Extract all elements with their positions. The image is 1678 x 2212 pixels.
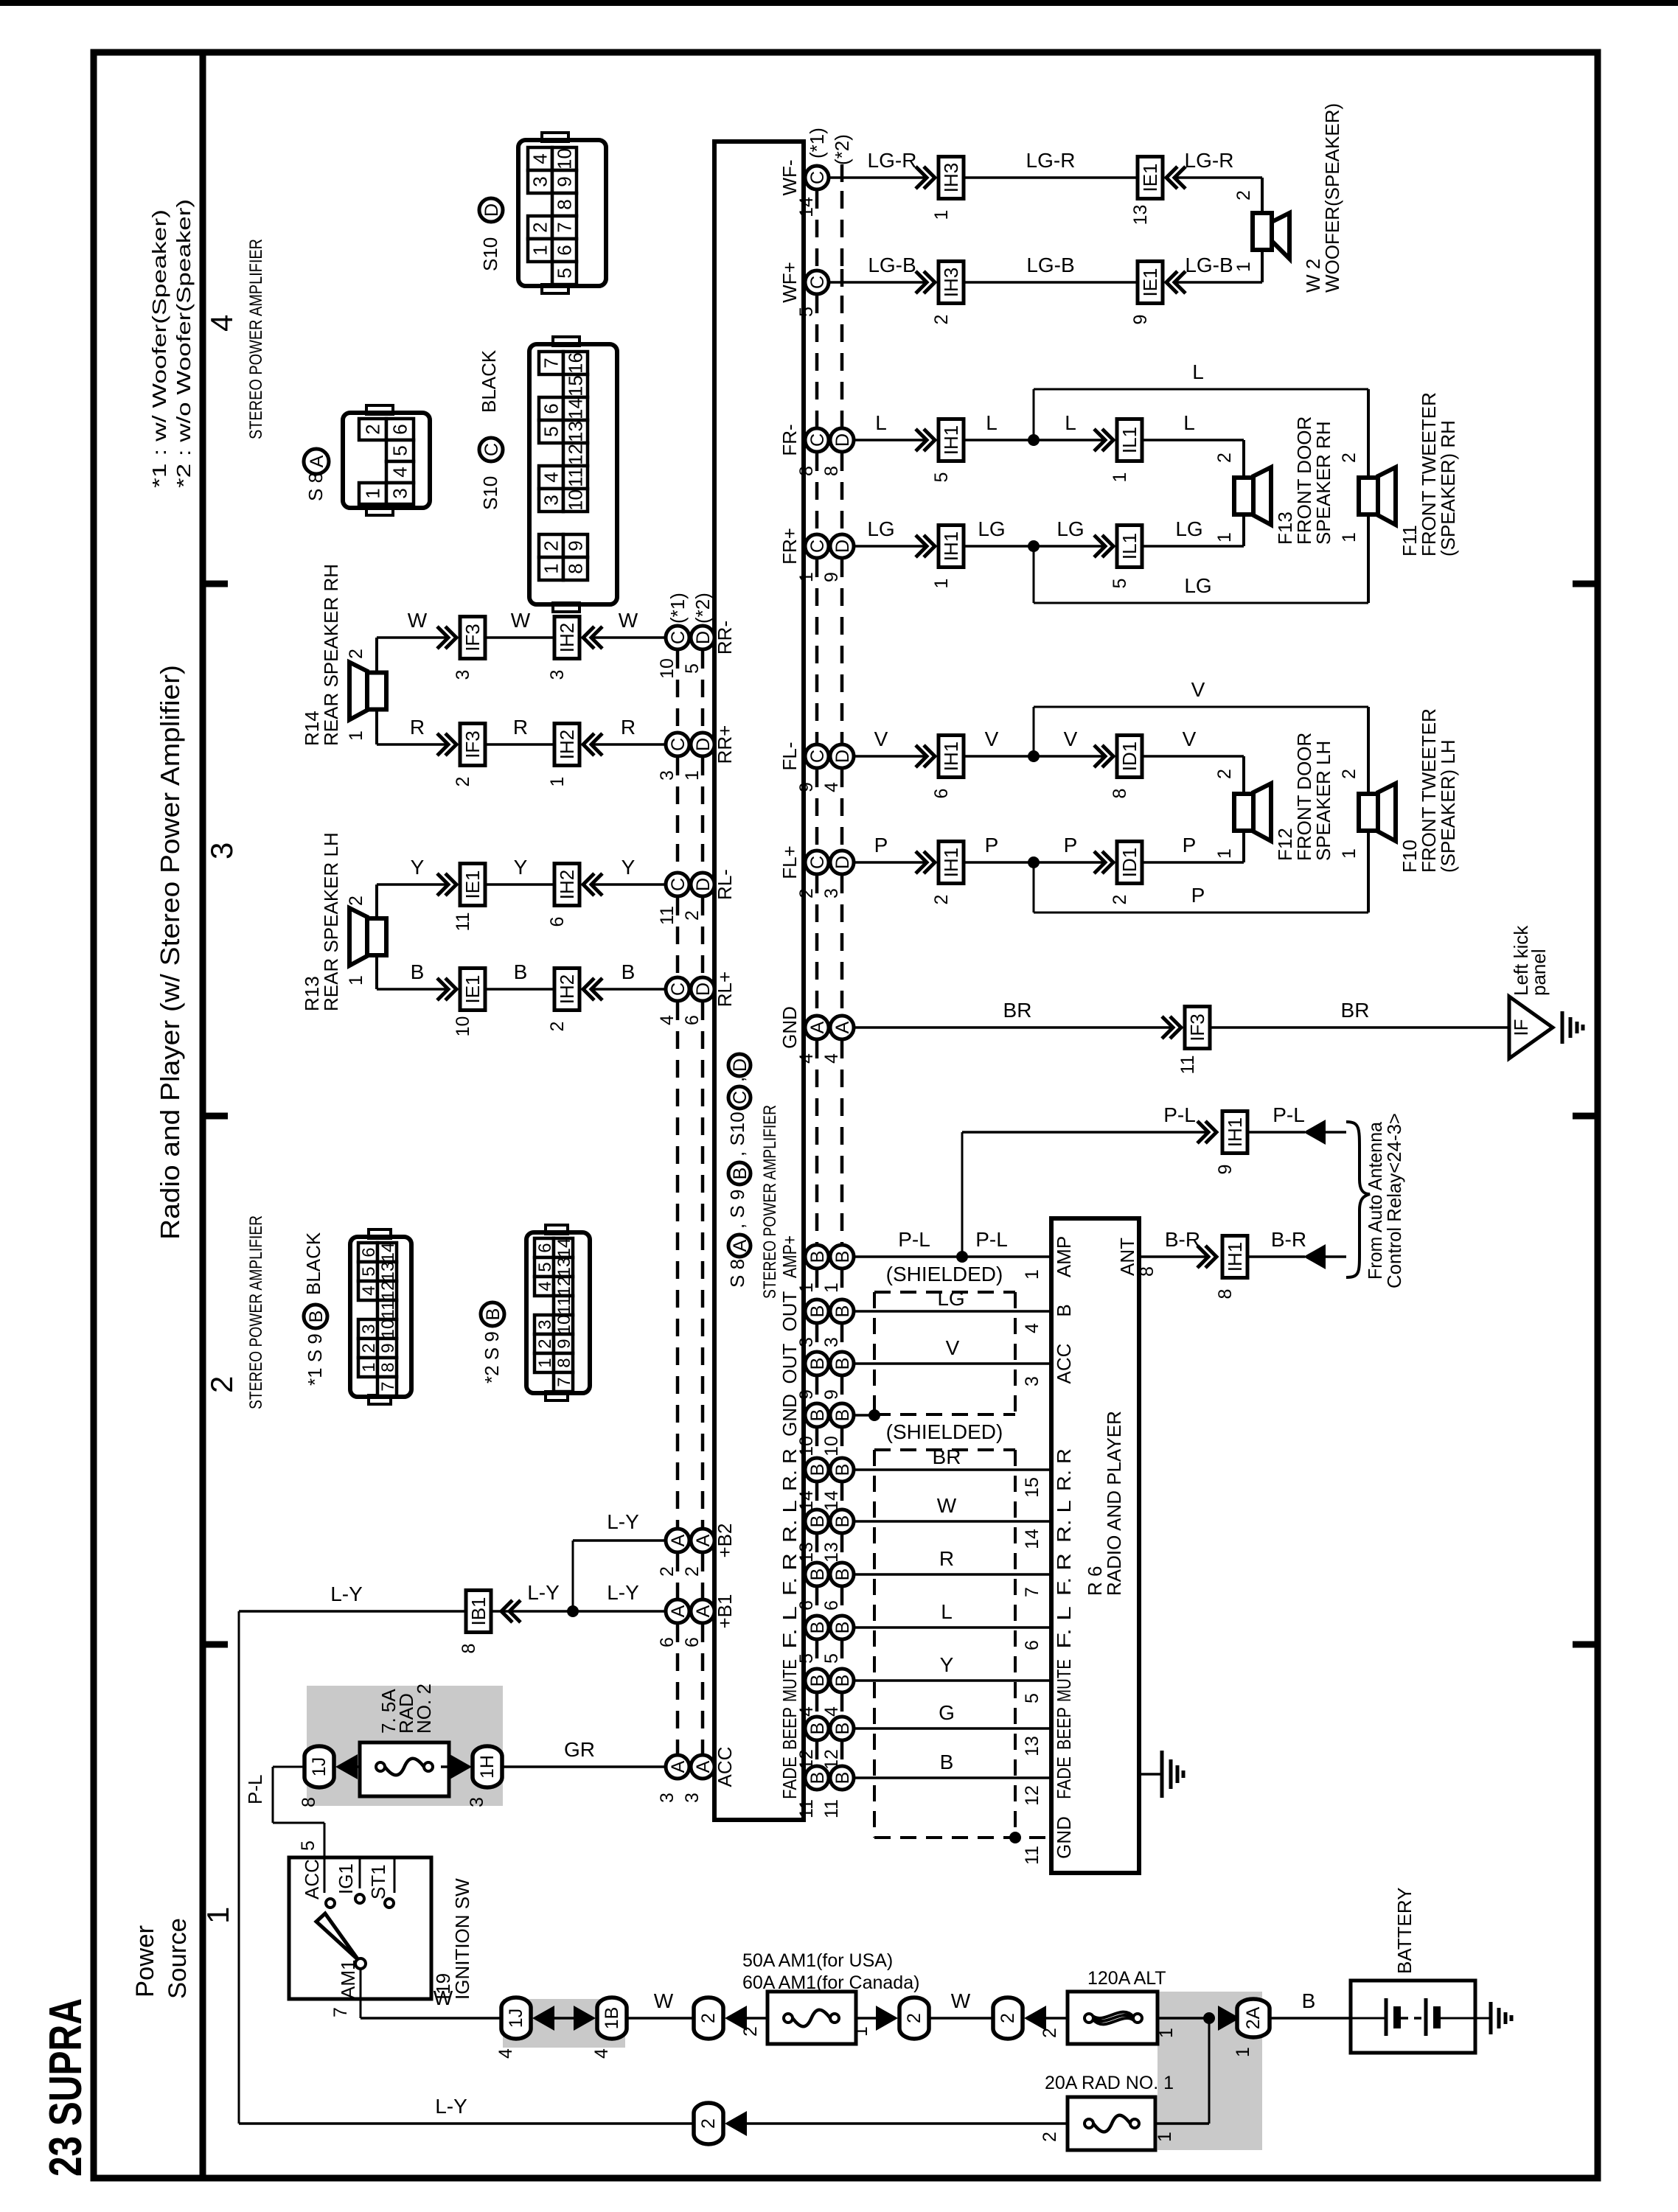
svg-text:1: 1 — [796, 572, 817, 582]
svg-text:9: 9 — [796, 1389, 817, 1400]
connector 1B pin 4 — [597, 1998, 627, 2039]
svg-text:7: 7 — [1022, 1587, 1042, 1597]
svg-text:1: 1 — [931, 210, 952, 220]
svg-text:120A ALT: 120A ALT — [1087, 1968, 1166, 1989]
svg-text:12: 12 — [565, 444, 587, 465]
svg-text:2: 2 — [931, 315, 952, 325]
svg-text:P-L: P-L — [975, 1228, 1008, 1251]
riser from RAD NO.1 to junction — [1208, 2018, 1211, 2124]
svg-text:1: 1 — [346, 975, 366, 985]
svg-text:V: V — [1064, 728, 1078, 750]
svg-text:5: 5 — [821, 1653, 842, 1664]
svg-text:2: 2 — [931, 895, 952, 905]
connector 2 (oval) — [899, 1998, 929, 2039]
svg-text:11: 11 — [378, 1301, 398, 1319]
front tweeter speaker — [1378, 784, 1396, 841]
svg-text:13: 13 — [821, 1542, 842, 1563]
svg-text:P-L: P-L — [244, 1775, 266, 1804]
svg-text:6: 6 — [547, 917, 568, 927]
connector IH2 pin 1 — [554, 724, 579, 766]
wire LG from amp — [854, 545, 926, 548]
svg-text:3: 3 — [467, 1797, 487, 1807]
svg-text:C: C — [730, 1091, 751, 1104]
svg-text:B-R: B-R — [1165, 1228, 1200, 1251]
svg-text:3: 3 — [547, 670, 568, 680]
svg-text:5: 5 — [1022, 1693, 1042, 1703]
svg-text:A: A — [668, 1760, 689, 1773]
wire to door speaker — [1142, 861, 1244, 864]
svg-text:ANT: ANT — [1116, 1238, 1138, 1276]
svg-text:5: 5 — [540, 426, 563, 436]
svg-text:1B: 1B — [602, 2007, 622, 2030]
wire P from amp — [854, 861, 926, 864]
svg-text:2: 2 — [1233, 190, 1254, 200]
svg-text:BR: BR — [1003, 999, 1032, 1022]
svg-text:14: 14 — [378, 1243, 398, 1263]
top branch wire to tweeter — [1033, 707, 1035, 756]
svg-text:S10: S10 — [479, 476, 501, 510]
svg-text:IF: IF — [1510, 1019, 1532, 1036]
svg-text:4: 4 — [796, 1053, 817, 1064]
svg-text:A: A — [807, 1021, 828, 1033]
connector IE1 pin 9 — [1138, 262, 1163, 304]
wires OUT/OUT (LG,V) — [854, 1310, 1051, 1313]
junction — [567, 1605, 579, 1617]
junction — [1028, 540, 1040, 552]
S10 D caption — [479, 198, 503, 222]
svg-text:B: B — [832, 1515, 853, 1528]
connector 2 (oval) — [694, 1998, 723, 2039]
svg-text:D: D — [693, 983, 714, 996]
svg-text:AMP+: AMP+ — [779, 1235, 801, 1278]
ground point IF triangle — [1509, 997, 1553, 1058]
svg-text:, S10: , S10 — [726, 1112, 748, 1156]
svg-text:W: W — [511, 609, 531, 632]
svg-text:D: D — [481, 203, 502, 217]
junction battery feed — [1203, 2012, 1215, 2024]
svg-text:12: 12 — [378, 1281, 398, 1301]
svg-text:panel: panel — [1528, 949, 1550, 996]
svg-text:8: 8 — [821, 466, 842, 476]
svg-text:2: 2 — [698, 2013, 719, 2023]
svg-text:3: 3 — [389, 488, 411, 498]
svg-text:ACC: ACC — [301, 1859, 323, 1899]
svg-text:2: 2 — [1110, 895, 1130, 905]
svg-text:11: 11 — [796, 1799, 817, 1818]
svg-text:Source: Source — [164, 1918, 192, 1999]
svg-text:L-Y: L-Y — [435, 2095, 467, 2118]
svg-text:A: A — [668, 1605, 689, 1617]
svg-text:1: 1 — [931, 579, 952, 589]
svg-text:SPEAKER RH: SPEAKER RH — [1312, 421, 1334, 545]
amp left C/D dashed bus lines — [676, 651, 680, 731]
right edge tick 4/3 — [1573, 581, 1598, 587]
svg-text:5: 5 — [796, 1653, 817, 1664]
arrow into 1J — [335, 1754, 358, 1779]
wire to woofer — [1175, 281, 1262, 284]
connector IH1 pin 8 — [1222, 1236, 1247, 1278]
svg-text:B: B — [832, 1772, 853, 1784]
svg-text:V: V — [874, 728, 888, 750]
svg-text:9: 9 — [554, 176, 576, 186]
connector IE1 pin 13 — [1138, 157, 1163, 199]
svg-text:4: 4 — [821, 1053, 842, 1064]
arrow from auto antenna relay (P-L) — [1303, 1120, 1326, 1145]
svg-text:2: 2 — [1040, 2028, 1060, 2038]
svg-text:GND: GND — [1053, 1816, 1075, 1859]
connector 2A pin 1 — [1237, 1999, 1270, 2037]
wire to door speaker — [1142, 755, 1244, 758]
ST1 terminal — [394, 1857, 396, 1893]
svg-text:13: 13 — [554, 1257, 574, 1277]
svg-text:C: C — [668, 738, 689, 751]
svg-text:9: 9 — [378, 1343, 398, 1353]
svg-text:B: B — [832, 1305, 853, 1318]
svg-text:1: 1 — [201, 1907, 235, 1924]
svg-text:C: C — [807, 433, 828, 447]
svg-text:D: D — [730, 1058, 751, 1072]
svg-text:IE1: IE1 — [1139, 268, 1161, 296]
left riser L-Y — [238, 1611, 240, 2124]
svg-text:1: 1 — [796, 1283, 817, 1293]
svg-text:6: 6 — [657, 1637, 678, 1647]
fuse box 20A RAD NO.1 — [1068, 2097, 1155, 2150]
connector S10 C BLACK pictorial — [529, 344, 617, 604]
svg-text:B: B — [832, 1675, 853, 1687]
svg-text:1: 1 — [1110, 472, 1130, 483]
svg-text:8: 8 — [1215, 1289, 1236, 1299]
svg-text:1: 1 — [851, 2026, 871, 2037]
svg-text:IB1: IB1 — [467, 1597, 490, 1625]
svg-text:10: 10 — [565, 489, 587, 511]
svg-text:3: 3 — [1022, 1376, 1042, 1386]
svg-text:IGNITION SW: IGNITION SW — [451, 1878, 473, 2000]
svg-text:*1 : w/ Woofer(Speaker): *1 : w/ Woofer(Speaker) — [148, 209, 170, 488]
connector IH2 pin 2 — [554, 969, 579, 1011]
right edge tick 2/1 — [1573, 1641, 1598, 1648]
svg-text:S 8: S 8 — [726, 1259, 748, 1288]
svg-text:IH1: IH1 — [1224, 1117, 1246, 1147]
svg-text:ST1: ST1 — [367, 1864, 389, 1899]
fuse box 50A/60A AM1 — [767, 1992, 856, 2044]
svg-text:60A AM1(for Canada): 60A AM1(for Canada) — [742, 1972, 919, 1993]
svg-text:BR: BR — [1341, 999, 1370, 1022]
svg-text:IH1: IH1 — [940, 531, 962, 561]
svg-text:B: B — [832, 1358, 853, 1370]
svg-text:IE1: IE1 — [462, 974, 484, 1003]
svg-text:2: 2 — [204, 1376, 239, 1393]
svg-text:16: 16 — [565, 352, 587, 374]
svg-text:LG-R: LG-R — [1026, 149, 1076, 172]
svg-text:10: 10 — [378, 1319, 398, 1339]
svg-text:1: 1 — [362, 488, 384, 498]
svg-text:11: 11 — [1022, 1846, 1042, 1865]
svg-text:4: 4 — [796, 1706, 817, 1717]
svg-text:LG: LG — [867, 517, 894, 540]
svg-text:P-L: P-L — [1273, 1103, 1305, 1126]
svg-text:OUT: OUT — [779, 1343, 801, 1384]
stereo power amplifier box — [714, 142, 804, 1820]
P-L branch riser — [961, 1132, 964, 1257]
wire to amp — [592, 988, 666, 991]
svg-text:L-Y: L-Y — [330, 1583, 363, 1605]
svg-text:P-L: P-L — [1163, 1103, 1196, 1126]
wire — [964, 281, 1138, 284]
svg-text:2: 2 — [698, 2118, 719, 2129]
svg-text:STEREO POWER AMPLIFIER: STEREO POWER AMPLIFIER — [760, 1105, 780, 1299]
svg-text:BLACK: BLACK — [478, 349, 500, 413]
svg-text:8: 8 — [378, 1362, 398, 1372]
svg-text:14: 14 — [554, 1238, 574, 1258]
amp right C/D dashed bus lines — [815, 191, 819, 269]
svg-text:2: 2 — [362, 424, 384, 434]
svg-text:R: R — [939, 1547, 954, 1570]
svg-text:REAR SPEAKER LH: REAR SPEAKER LH — [320, 832, 342, 1011]
svg-text:2: 2 — [682, 910, 703, 921]
svg-text:C: C — [668, 983, 689, 996]
P-L wire to antenna relay — [962, 1131, 1210, 1134]
svg-text:3: 3 — [796, 1337, 817, 1347]
svg-text:1: 1 — [1156, 2028, 1177, 2038]
svg-text:L-Y: L-Y — [607, 1581, 639, 1604]
rear speaker wire B — [377, 988, 448, 991]
svg-text:Control Relay<24-3>: Control Relay<24-3> — [1383, 1113, 1405, 1288]
bottom branch wire to tweeter — [1033, 862, 1035, 913]
bottom branch wire to tweeter — [1033, 546, 1035, 603]
connector IH3 pin 1 — [939, 157, 964, 199]
svg-text:8: 8 — [1110, 789, 1130, 799]
svg-text:A: A — [730, 1239, 751, 1252]
R6 ground lead — [1139, 1773, 1162, 1776]
svg-text:B: B — [832, 1464, 853, 1476]
svg-text:2: 2 — [453, 777, 473, 787]
arrow into 1H — [441, 1765, 456, 1768]
svg-text:5: 5 — [1110, 579, 1130, 589]
W wire to 2 — [628, 2017, 694, 2020]
svg-text:D: D — [693, 738, 714, 751]
svg-text:V: V — [1183, 728, 1197, 750]
svg-text:B: B — [514, 960, 528, 983]
svg-text:R. L: R. L — [1053, 1500, 1075, 1543]
svg-text:L-Y: L-Y — [527, 1581, 560, 1604]
svg-text:23 SUPRA: 23 SUPRA — [41, 1998, 91, 2177]
svg-text:(*1): (*1) — [806, 128, 828, 158]
svg-text:*2 : w/o Woofer(Speaker): *2 : w/o Woofer(Speaker) — [173, 199, 195, 488]
amp right terminal circles — [805, 166, 829, 189]
svg-text:20A RAD NO. 1: 20A RAD NO. 1 — [1045, 2073, 1174, 2093]
svg-text:11: 11 — [1177, 1056, 1198, 1075]
svg-text:1: 1 — [682, 770, 703, 781]
svg-text:50A AM1(for USA): 50A AM1(for USA) — [742, 1950, 893, 1971]
svg-text:1: 1 — [1022, 1269, 1042, 1280]
svg-text:B: B — [807, 1464, 828, 1476]
svg-text:3: 3 — [657, 770, 678, 781]
connector S9 *1 BLACK pictorial — [350, 1237, 411, 1397]
svg-text:RR+: RR+ — [714, 725, 736, 764]
svg-text:W: W — [434, 1986, 453, 2009]
connector IH2 pin 6 — [554, 864, 579, 906]
svg-text:IH1: IH1 — [940, 848, 962, 877]
long L-Y wire to left — [239, 1610, 466, 1613]
chassis ground symbol — [1561, 1011, 1564, 1044]
svg-text:F. L: F. L — [1053, 1606, 1075, 1649]
svg-text:NO. 2: NO. 2 — [413, 1684, 435, 1734]
svg-text:C: C — [668, 878, 689, 891]
svg-text:8: 8 — [554, 199, 576, 209]
svg-text:15: 15 — [565, 375, 587, 397]
svg-text:4: 4 — [657, 1015, 678, 1025]
svg-text:8: 8 — [1137, 1266, 1157, 1277]
svg-text:A: A — [693, 1760, 714, 1773]
svg-text:1J: 1J — [309, 1757, 330, 1776]
connector ID1 pin 2 — [1117, 842, 1142, 884]
svg-text:W: W — [951, 1989, 971, 2012]
svg-text:FL-: FL- — [779, 742, 801, 771]
svg-text:1: 1 — [1339, 848, 1360, 859]
wire — [964, 176, 1138, 179]
svg-text:W: W — [937, 1494, 957, 1517]
wire LG-R from amp to woofer — [829, 176, 926, 179]
S9 *2 caption — [481, 1302, 504, 1326]
svg-text:9: 9 — [1130, 315, 1151, 325]
svg-text:3: 3 — [529, 176, 551, 186]
svg-text:IH2: IH2 — [556, 623, 578, 652]
svg-text:(*1): (*1) — [666, 593, 689, 624]
svg-text:WF-: WF- — [779, 159, 801, 195]
grey highlight RAD NO.2 — [307, 1686, 503, 1806]
svg-text:W: W — [619, 609, 638, 632]
ACC terminal — [324, 1857, 326, 1893]
W wire ignition to 1J — [361, 2017, 501, 2020]
wires R.R..FADE — [854, 1468, 1051, 1471]
svg-text:B: B — [807, 1723, 828, 1735]
svg-text:1: 1 — [1155, 2132, 1175, 2142]
svg-text:D: D — [832, 750, 853, 763]
wire to door speaker — [1142, 545, 1244, 548]
grey highlight battery feed — [1157, 1992, 1262, 2150]
svg-text:IH1: IH1 — [940, 742, 962, 771]
svg-text:4: 4 — [1022, 1323, 1042, 1333]
front tweeter speaker — [1378, 467, 1396, 525]
arrow from auto antenna relay (B-R) — [1303, 1244, 1326, 1269]
svg-text:4: 4 — [540, 472, 563, 482]
svg-text:C: C — [807, 856, 828, 869]
svg-text:AM1: AM1 — [337, 1960, 359, 1999]
svg-text:2: 2 — [740, 2026, 761, 2037]
svg-text:C: C — [807, 750, 828, 763]
svg-text:8: 8 — [299, 1797, 319, 1807]
svg-text:2: 2 — [682, 1566, 703, 1577]
svg-text:REAR SPEAKER RH: REAR SPEAKER RH — [320, 564, 342, 746]
connector IF3 pin 3 — [460, 617, 485, 659]
connector IH1 pin 5 — [939, 419, 964, 461]
band section tick 3/2 — [203, 1113, 228, 1120]
svg-text:8: 8 — [565, 563, 587, 573]
svg-text:13: 13 — [796, 1542, 817, 1563]
svg-text:B: B — [832, 1569, 853, 1581]
svg-text:LG-R: LG-R — [1185, 149, 1234, 172]
svg-text:L: L — [941, 1600, 953, 1623]
ignition switch box — [289, 1857, 431, 1999]
svg-text:2: 2 — [796, 888, 817, 899]
shielded box 1 — [874, 1291, 1015, 1294]
svg-text:V: V — [985, 728, 999, 750]
svg-text:10: 10 — [453, 1016, 473, 1037]
svg-text:ACC: ACC — [1053, 1344, 1075, 1384]
GR wire to ACC — [504, 1765, 666, 1768]
svg-text:RL+: RL+ — [714, 971, 736, 1007]
connector IH1 pin 6 — [939, 736, 964, 778]
svg-text:3: 3 — [821, 1337, 842, 1347]
svg-text:1: 1 — [1339, 532, 1360, 542]
svg-text:1: 1 — [540, 563, 563, 573]
svg-text:(SHIELDED): (SHIELDED) — [886, 1263, 1003, 1285]
svg-text:D: D — [832, 856, 853, 869]
svg-text:2: 2 — [1214, 453, 1235, 463]
svg-text:B: B — [807, 1515, 828, 1528]
rear speaker wire Y — [377, 883, 448, 886]
svg-text:A: A — [832, 1021, 853, 1033]
svg-text:9: 9 — [565, 540, 587, 551]
svg-text:L: L — [1183, 411, 1195, 434]
svg-text:D: D — [693, 878, 714, 891]
svg-text:14: 14 — [796, 1490, 817, 1511]
svg-text:Y: Y — [940, 1653, 954, 1676]
wire to amp — [592, 743, 666, 746]
band section tick 2/1 — [203, 1641, 228, 1648]
svg-text:ID1: ID1 — [1118, 742, 1141, 771]
svg-text:WOOFER(SPEAKER): WOOFER(SPEAKER) — [1321, 103, 1343, 293]
svg-text:5: 5 — [298, 1841, 318, 1851]
svg-text:B: B — [832, 1409, 853, 1422]
svg-text:R. R: R. R — [1053, 1448, 1075, 1491]
svg-text:P: P — [985, 834, 999, 856]
svg-text:2: 2 — [1339, 769, 1360, 779]
junction — [1028, 434, 1040, 446]
junction — [1028, 750, 1040, 762]
svg-text:C: C — [807, 276, 828, 289]
svg-text:8: 8 — [796, 466, 817, 476]
svg-text:L: L — [1192, 360, 1204, 383]
svg-text:2: 2 — [540, 540, 563, 551]
svg-text:C: C — [668, 631, 689, 644]
svg-text:11: 11 — [657, 906, 678, 925]
svg-text:C: C — [807, 171, 828, 184]
svg-text:1: 1 — [1233, 2047, 1253, 2057]
connector IH2 pin 3 — [554, 617, 579, 659]
svg-text:2: 2 — [1214, 769, 1235, 779]
AM1 contact and lever — [355, 1958, 366, 1969]
right edge tick 3/2 — [1573, 1113, 1598, 1120]
AMP+ wire P-L — [854, 1255, 1051, 1258]
svg-text:9: 9 — [796, 782, 817, 792]
svg-text:5: 5 — [682, 663, 703, 674]
connector S10 D pictorial — [518, 140, 606, 286]
svg-text:4: 4 — [389, 467, 411, 477]
svg-text:2: 2 — [1339, 453, 1360, 463]
svg-text:RL-: RL- — [714, 869, 736, 900]
svg-text:IG1: IG1 — [335, 1863, 357, 1894]
svg-text:Y: Y — [411, 856, 425, 879]
junction P-L — [956, 1251, 968, 1263]
svg-text:A: A — [307, 455, 327, 467]
svg-text:7: 7 — [540, 357, 563, 368]
+B1 wire L-Y — [491, 1610, 666, 1613]
svg-text:10: 10 — [554, 148, 576, 170]
radio and player box R6 — [1051, 1218, 1139, 1873]
svg-text:P: P — [1183, 834, 1197, 856]
svg-text:IE1: IE1 — [1139, 163, 1161, 192]
